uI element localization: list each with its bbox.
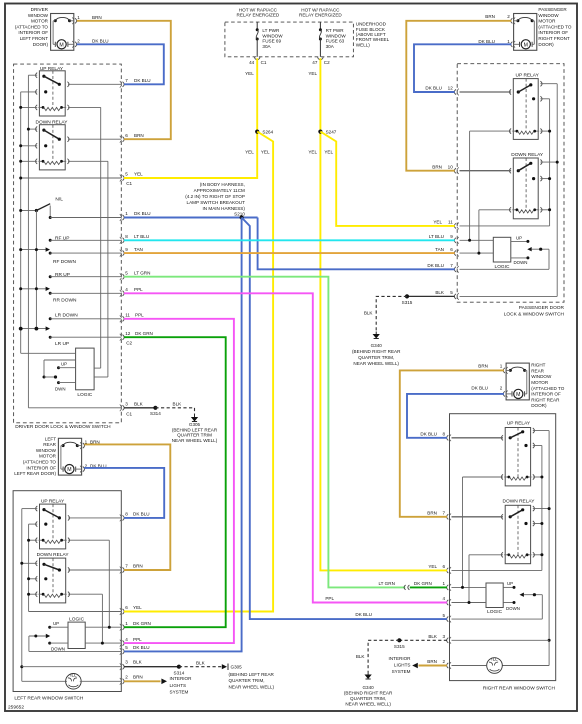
svg-text:LIGHTS: LIGHTS bbox=[394, 663, 411, 668]
driver switch pin 1 row bbox=[49, 216, 122, 219]
svg-text:REAR: REAR bbox=[531, 368, 544, 373]
wire BRN right rear switch pin 2 to interior lights bbox=[419, 665, 448, 667]
svg-text:6: 6 bbox=[443, 564, 446, 569]
svg-text:BLK: BLK bbox=[356, 654, 366, 659]
svg-text:4: 4 bbox=[125, 287, 128, 292]
motor passenger window motor bbox=[511, 14, 537, 51]
svg-text:(IN BODY HARNESS,: (IN BODY HARNESS, bbox=[200, 182, 245, 187]
svg-text:LR DOWN: LR DOWN bbox=[55, 313, 78, 319]
passenger relay common wire pin 10 bbox=[460, 170, 512, 172]
svg-text:INTERIOR OF: INTERIOR OF bbox=[26, 465, 56, 470]
svg-text:NEAR WHEEL WELL): NEAR WHEEL WELL) bbox=[353, 361, 399, 366]
svg-text:2: 2 bbox=[77, 39, 80, 44]
driver pin 5 YEL bbox=[123, 175, 125, 180]
wire DK BLU S210 branch to right rear switch pin 5 bbox=[242, 218, 447, 620]
driver logic DWN input bbox=[55, 381, 76, 391]
passenger relay coil wires to logic bbox=[470, 131, 512, 253]
passenger pin 11 bbox=[454, 223, 456, 228]
svg-text:RR UP: RR UP bbox=[55, 272, 70, 278]
wire YEL from RT PWR WINDOW fuse to right rear switch pin 6 bbox=[320, 58, 447, 570]
RF window rocker contacts bbox=[19, 236, 121, 266]
svg-text:DOWN RELAY: DOWN RELAY bbox=[503, 499, 536, 505]
splice S314 (driver) bbox=[153, 406, 157, 410]
svg-text:WELL): WELL) bbox=[356, 42, 371, 47]
svg-text:PASSENGER: PASSENGER bbox=[538, 7, 567, 12]
svg-text:NEAR WHEEL WELL): NEAR WHEEL WELL) bbox=[345, 702, 391, 707]
svg-text:C1: C1 bbox=[126, 411, 132, 416]
svg-text:S314: S314 bbox=[150, 411, 161, 416]
svg-text:TAN: TAN bbox=[134, 247, 143, 252]
fuse LT PWR WINDOW FUSE 69 30A bbox=[256, 22, 258, 29]
svg-text:C2: C2 bbox=[324, 60, 330, 65]
left rear switch power bus bbox=[27, 524, 37, 611]
svg-text:MOTOR: MOTOR bbox=[531, 380, 549, 385]
right rear relay common wire pin 7 bbox=[452, 516, 504, 518]
svg-text:INTERIOR OF: INTERIOR OF bbox=[531, 392, 561, 397]
driver pin 6 bbox=[123, 137, 125, 142]
svg-text:RF DOWN: RF DOWN bbox=[53, 259, 76, 265]
driver pin 5 LT GRN bbox=[123, 274, 125, 279]
svg-text:LIGHTS: LIGHTS bbox=[170, 683, 187, 688]
svg-text:DRIVER DOOR LOCK & WINDOW SWI: DRIVER DOOR LOCK & WINDOW SWITCH bbox=[15, 424, 111, 430]
ground G340 (passenger) bbox=[374, 332, 379, 339]
wire YEL branch from S264 to left rear switch pin 6 bbox=[124, 132, 273, 612]
svg-text:6: 6 bbox=[450, 247, 453, 252]
svg-text:DK BLU: DK BLU bbox=[420, 432, 437, 437]
svg-text:S315: S315 bbox=[402, 300, 413, 305]
svg-text:QUARTER TRIM,: QUARTER TRIM, bbox=[358, 355, 394, 360]
motor right rear window motor bbox=[503, 363, 529, 400]
driver logic UP input bbox=[57, 361, 76, 369]
svg-text:30A: 30A bbox=[326, 44, 335, 49]
driver logic input from power bus bbox=[21, 352, 76, 354]
wire DK BLU S210 branch to left rear switch pin 5 bbox=[124, 218, 242, 652]
svg-text:DK GRN: DK GRN bbox=[133, 621, 151, 626]
left rear relay output pin 8 bbox=[68, 517, 121, 519]
svg-text:NEAR WHEEL WELL): NEAR WHEEL WELL) bbox=[229, 684, 275, 689]
svg-text:TAN: TAN bbox=[435, 247, 444, 252]
svg-text:DWN: DWN bbox=[55, 386, 66, 391]
svg-text:BLK: BLK bbox=[196, 660, 206, 665]
right rear logic DOWN row pin 4 bbox=[452, 601, 520, 611]
svg-text:RIGHT: RIGHT bbox=[531, 363, 545, 368]
left rear pin 7 bbox=[123, 567, 125, 572]
passenger pin 5 bbox=[454, 294, 456, 299]
svg-text:LOCK & WINDOW SWITCH: LOCK & WINDOW SWITCH bbox=[504, 311, 565, 317]
left rear pin 2 bbox=[123, 679, 125, 684]
connector pin 44 C1 bbox=[254, 57, 260, 60]
svg-text:YEL: YEL bbox=[433, 220, 442, 225]
svg-text:5: 5 bbox=[125, 172, 128, 177]
svg-text:G305: G305 bbox=[189, 422, 201, 427]
svg-text:4: 4 bbox=[125, 637, 128, 642]
svg-text:LT GRN: LT GRN bbox=[134, 270, 150, 275]
right rear pin 4 bbox=[447, 600, 449, 605]
wire BRN left rear motor pin 1 to left rear switch pin 7 bbox=[84, 444, 170, 570]
svg-text:LEFT REAR WINDOW SWITCH: LEFT REAR WINDOW SWITCH bbox=[14, 696, 83, 702]
splice S315 (passenger) bbox=[405, 294, 409, 298]
svg-text:PASSENGER DOOR: PASSENGER DOOR bbox=[519, 305, 565, 311]
svg-text:UP RELAY: UP RELAY bbox=[507, 421, 531, 427]
driver pin 1 bbox=[123, 215, 125, 220]
right rear switch power bus bbox=[533, 446, 544, 571]
svg-text:(ATTACHED TO: (ATTACHED TO bbox=[531, 386, 565, 391]
right rear pin 6 bbox=[447, 568, 449, 573]
left rear pin 3 bbox=[123, 664, 125, 669]
underhood fuse block box bbox=[225, 22, 354, 57]
svg-text:DK BLU: DK BLU bbox=[133, 512, 150, 517]
splice S315 (right rear) bbox=[397, 638, 401, 642]
svg-text:RIGHT REAR WINDOW SWITCH: RIGHT REAR WINDOW SWITCH bbox=[483, 685, 556, 691]
svg-text:LOGIC: LOGIC bbox=[487, 609, 502, 615]
left rear pin 1 bbox=[123, 625, 125, 630]
wire DK GRN inline connector to right rear switch pin 1 bbox=[410, 586, 447, 588]
svg-text:C1: C1 bbox=[261, 60, 267, 65]
svg-text:DOWN RELAY: DOWN RELAY bbox=[37, 552, 70, 558]
svg-text:5: 5 bbox=[450, 290, 453, 295]
wire DK GRN driver switch pin 12 to left rear switch pin 1 bbox=[124, 337, 226, 627]
svg-text:INTERIOR OF: INTERIOR OF bbox=[538, 30, 568, 35]
svg-text:DOWN: DOWN bbox=[506, 606, 520, 611]
left rear pin 6 bbox=[123, 609, 125, 614]
relay driver UP relay bbox=[36, 71, 70, 116]
svg-text:(ATTACHED TO: (ATTACHED TO bbox=[538, 24, 572, 29]
passenger switch ground bus bbox=[540, 84, 558, 297]
svg-text:5: 5 bbox=[125, 645, 128, 650]
svg-text:2: 2 bbox=[443, 659, 446, 664]
svg-text:LOGIC: LOGIC bbox=[69, 616, 84, 622]
right rear window switch box bbox=[450, 414, 556, 681]
passenger door lock and window switch box bbox=[457, 64, 564, 303]
svg-text:(BEHIND LEFT REAR: (BEHIND LEFT REAR bbox=[172, 427, 218, 432]
svg-text:MOTOR: MOTOR bbox=[31, 19, 49, 24]
svg-text:N/L: N/L bbox=[55, 197, 63, 203]
svg-text:S247: S247 bbox=[326, 129, 337, 134]
svg-text:12: 12 bbox=[125, 331, 131, 336]
wire TAN driver switch pin 9 to passenger switch pin 6 bbox=[124, 252, 455, 254]
svg-text:G340: G340 bbox=[362, 685, 374, 690]
svg-text:2: 2 bbox=[125, 675, 128, 680]
passenger pin 7 bbox=[454, 267, 456, 272]
svg-text:RIGHT REAR: RIGHT REAR bbox=[531, 397, 560, 402]
svg-text:LT BLU: LT BLU bbox=[429, 234, 444, 239]
relay passenger DOWN relay bbox=[509, 158, 542, 219]
driver switch power bus bbox=[19, 92, 37, 353]
driver switch pin 3 ground row bbox=[28, 407, 121, 409]
passenger pin 6 row bbox=[460, 252, 494, 255]
svg-text:YEL: YEL bbox=[261, 149, 270, 154]
svg-text:5: 5 bbox=[125, 270, 128, 275]
LR window rocker contacts bbox=[19, 313, 122, 347]
svg-text:LAMP SWITCH BREAKOUT: LAMP SWITCH BREAKOUT bbox=[187, 200, 246, 205]
svg-text:DOOR): DOOR) bbox=[33, 42, 49, 47]
svg-text:WINDOW: WINDOW bbox=[28, 13, 49, 18]
svg-text:30A: 30A bbox=[262, 44, 271, 49]
svg-text:12: 12 bbox=[448, 86, 454, 91]
svg-text:DK BLU: DK BLU bbox=[471, 386, 488, 391]
svg-text:YEL: YEL bbox=[428, 564, 437, 569]
svg-text:47: 47 bbox=[312, 60, 318, 65]
svg-text:DK BLU: DK BLU bbox=[355, 612, 372, 617]
svg-text:DOWN: DOWN bbox=[514, 260, 528, 265]
svg-text:7: 7 bbox=[450, 263, 453, 268]
svg-text:3: 3 bbox=[443, 634, 446, 639]
left rear pin 8 bbox=[123, 515, 125, 520]
svg-text:DK BLU: DK BLU bbox=[425, 86, 442, 91]
svg-text:BRN: BRN bbox=[432, 164, 442, 169]
ground G305 (driver) bbox=[192, 415, 197, 422]
passenger logic box bbox=[493, 237, 511, 262]
driver pin 7 bbox=[123, 82, 125, 87]
wire BLK dashed left rear to ground G305 bbox=[179, 666, 222, 668]
svg-text:SYSTEM: SYSTEM bbox=[392, 669, 411, 674]
right rear pin 3 ground row bbox=[452, 639, 550, 641]
passenger logic UP output bbox=[511, 236, 530, 243]
passenger relay common wire pin 12 bbox=[460, 91, 512, 93]
driver logic wiper bbox=[43, 360, 76, 379]
left rear pin 3 ground row bbox=[22, 666, 122, 668]
right rear pin 1 bbox=[447, 585, 449, 590]
left rear pin 4 bbox=[123, 641, 125, 646]
svg-text:DOOR): DOOR) bbox=[531, 403, 547, 408]
svg-text:1: 1 bbox=[443, 581, 446, 586]
left rear lockout wiper from pin 5 bbox=[29, 634, 121, 652]
left rear illumination lamp ILL bbox=[66, 672, 122, 689]
relay right rear DOWN relay bbox=[501, 505, 534, 563]
svg-text:7: 7 bbox=[125, 564, 128, 569]
svg-text:7: 7 bbox=[443, 511, 446, 516]
svg-text:G340: G340 bbox=[371, 343, 383, 348]
svg-text:LOGIC: LOGIC bbox=[77, 392, 92, 398]
svg-text:3: 3 bbox=[125, 659, 128, 664]
svg-text:MOTOR: MOTOR bbox=[538, 19, 556, 24]
svg-text:BRN: BRN bbox=[133, 564, 143, 569]
svg-text:7: 7 bbox=[125, 78, 128, 83]
svg-text:YEL: YEL bbox=[308, 149, 317, 154]
svg-text:(BEHIND RIGHT REAR: (BEHIND RIGHT REAR bbox=[352, 349, 401, 354]
svg-text:1: 1 bbox=[500, 363, 503, 368]
svg-text:RR DOWN: RR DOWN bbox=[53, 298, 77, 304]
svg-text:11: 11 bbox=[448, 220, 453, 225]
svg-text:BRN: BRN bbox=[92, 15, 102, 20]
passenger pin 9 row bbox=[460, 239, 494, 242]
wire DK BLU right rear motor pin 2 to right rear switch pin 8 bbox=[407, 394, 504, 438]
svg-text:PPL: PPL bbox=[133, 637, 142, 642]
passenger pin 5 ground row bbox=[460, 295, 558, 297]
right rear pin 8 bbox=[447, 435, 449, 440]
passenger feed row pin 11 bbox=[460, 225, 550, 227]
svg-text:LR UP: LR UP bbox=[55, 341, 69, 347]
right rear lockout wiper from pin 5 bbox=[452, 593, 543, 620]
driver door lock and window switch box bbox=[14, 64, 122, 423]
svg-text:YEL: YEL bbox=[134, 172, 143, 177]
svg-text:DK BLU: DK BLU bbox=[134, 211, 151, 216]
left rear logic box bbox=[68, 622, 85, 648]
relay left rear UP relay bbox=[36, 504, 70, 549]
svg-text:RELAY ENERGIZED: RELAY ENERGIZED bbox=[299, 13, 342, 18]
svg-text:DK BLU: DK BLU bbox=[478, 39, 495, 44]
driver switch ground bus bbox=[27, 75, 37, 408]
driver pin 12 bbox=[123, 335, 125, 340]
svg-text:INTERIOR OF: INTERIOR OF bbox=[18, 30, 48, 35]
svg-text:DK BLU: DK BLU bbox=[92, 39, 109, 44]
svg-text:S314: S314 bbox=[174, 670, 185, 675]
svg-text:(ATTACHED TO: (ATTACHED TO bbox=[15, 24, 49, 29]
right rear pin 2 bbox=[447, 663, 449, 668]
svg-text:C2: C2 bbox=[126, 341, 132, 346]
svg-text:3: 3 bbox=[125, 402, 128, 407]
wire YEL branch from S247 to passenger switch pin 11 bbox=[320, 132, 454, 226]
svg-text:QUARTER TRIM,: QUARTER TRIM, bbox=[350, 696, 386, 701]
svg-text:DK GRN: DK GRN bbox=[135, 331, 153, 336]
svg-text:44: 44 bbox=[249, 60, 255, 65]
svg-text:2: 2 bbox=[500, 386, 503, 391]
svg-text:M: M bbox=[67, 467, 71, 473]
svg-text:(ATTACHED TO: (ATTACHED TO bbox=[23, 460, 57, 465]
svg-text:259652: 259652 bbox=[8, 704, 24, 710]
right rear pin 3 bbox=[447, 638, 449, 643]
svg-text:6: 6 bbox=[125, 133, 128, 138]
svg-text:1: 1 bbox=[507, 39, 510, 44]
svg-text:INTERIOR: INTERIOR bbox=[170, 676, 193, 681]
wire BRN passenger motor pin 2 to passenger switch pin 10 bbox=[406, 21, 511, 171]
driver pin 8 bbox=[123, 238, 125, 243]
svg-text:YEL: YEL bbox=[245, 149, 254, 154]
svg-text:4: 4 bbox=[443, 596, 446, 601]
wire BRN driver motor pin 1 to driver switch pin 6 bbox=[77, 21, 171, 139]
svg-text:UP: UP bbox=[516, 236, 522, 241]
svg-text:UP: UP bbox=[53, 621, 59, 626]
wire DK BLU driver switch pin 1 to splice S210 bbox=[124, 217, 258, 219]
inline connector LT GRN / DK GRN bbox=[404, 585, 406, 590]
right rear logic box bbox=[486, 583, 503, 608]
svg-text:LT GRN: LT GRN bbox=[378, 581, 394, 586]
svg-text:DOWN: DOWN bbox=[51, 647, 65, 652]
ground arrow G305 (left rear) bbox=[222, 664, 227, 669]
svg-text:1: 1 bbox=[77, 15, 80, 20]
wire DK BLU S210 branch to passenger switch pin 7 bbox=[258, 218, 455, 270]
svg-text:DK BLU: DK BLU bbox=[427, 263, 444, 268]
wire LT GRN driver switch pin 5 to inline connector bbox=[124, 277, 405, 588]
svg-text:BLK: BLK bbox=[173, 402, 183, 407]
driver pin 11 bbox=[123, 316, 125, 321]
motor left rear window motor bbox=[58, 438, 84, 475]
wire BLK left rear switch pin 3 to splice S314 bbox=[124, 666, 179, 668]
driver pin 4 bbox=[123, 291, 125, 296]
right rear relay common wire pin 8 bbox=[452, 437, 504, 439]
wire BLK dashed right rear to ground G340 bbox=[368, 640, 399, 672]
svg-text:BRN: BRN bbox=[427, 511, 437, 516]
left rear relay output pin 7 bbox=[68, 569, 121, 571]
svg-text:DK BLU: DK BLU bbox=[134, 78, 151, 83]
splice S247 bbox=[318, 130, 322, 134]
wire YEL from LT PWR WINDOW fuse to driver switch pin 5 bbox=[124, 58, 257, 178]
left rear pin 5 bbox=[123, 649, 125, 654]
svg-text:M: M bbox=[516, 392, 520, 398]
RR window rocker contacts bbox=[19, 272, 121, 304]
svg-text:DRIVER: DRIVER bbox=[31, 7, 49, 12]
driver relay output wire pin 6 bbox=[68, 138, 121, 140]
passenger pin 9 bbox=[454, 238, 456, 243]
svg-text:5: 5 bbox=[443, 613, 446, 618]
svg-text:8: 8 bbox=[125, 234, 128, 239]
wire BLK dashed right rear switch pin 3 to splice S315 bbox=[399, 639, 447, 641]
splice S264 bbox=[255, 130, 259, 134]
svg-text:BLK: BLK bbox=[364, 311, 374, 316]
svg-text:UP RELAY: UP RELAY bbox=[41, 498, 65, 504]
wire PPL driver switch pin 11 to left rear switch pin 4 bbox=[124, 319, 234, 643]
svg-text:PPL: PPL bbox=[325, 596, 334, 601]
svg-text:YEL: YEL bbox=[245, 71, 254, 76]
passenger pin 10 bbox=[454, 168, 456, 173]
svg-text:(BEHIND RIGHT REAR: (BEHIND RIGHT REAR bbox=[344, 691, 393, 696]
svg-text:BRN: BRN bbox=[485, 14, 495, 19]
svg-text:LEFT FRONT: LEFT FRONT bbox=[20, 36, 48, 41]
driver relay output wire pin 7 bbox=[68, 83, 121, 85]
left rear switch ground bus bbox=[20, 509, 65, 682]
wire BRN left rear switch pin 2 to interior lights bbox=[124, 680, 161, 682]
svg-text:DK BLU: DK BLU bbox=[133, 645, 150, 650]
svg-text:LEFT REAR DOOR): LEFT REAR DOOR) bbox=[14, 471, 56, 476]
svg-text:REAR: REAR bbox=[43, 442, 56, 447]
svg-text:BRN: BRN bbox=[134, 133, 144, 138]
svg-text:LT BLU: LT BLU bbox=[134, 234, 149, 239]
svg-text:8: 8 bbox=[125, 512, 128, 517]
svg-text:QUARTER TRIM,: QUARTER TRIM, bbox=[229, 678, 265, 683]
svg-text:G305: G305 bbox=[231, 665, 243, 670]
right rear pin 5 bbox=[447, 617, 449, 622]
svg-text:8: 8 bbox=[443, 432, 446, 437]
svg-text:9: 9 bbox=[125, 247, 128, 252]
wire DK BLU passenger motor pin 1 to passenger switch pin 12 bbox=[414, 44, 511, 92]
svg-text:2: 2 bbox=[507, 14, 510, 19]
wire DK BLU left rear motor pin 2 to left rear switch pin 8 bbox=[84, 468, 164, 518]
svg-text:S210: S210 bbox=[234, 211, 245, 216]
svg-text:IN MAIN HARNESS): IN MAIN HARNESS) bbox=[203, 206, 246, 211]
wire BLK dashed S315 to ground G340 bbox=[376, 296, 407, 331]
svg-text:PPL: PPL bbox=[135, 313, 144, 318]
svg-text:S315: S315 bbox=[394, 644, 405, 649]
svg-text:LEFT: LEFT bbox=[45, 436, 56, 441]
driver logic outputs to relay coils bbox=[94, 368, 108, 377]
svg-text:UP RELAY: UP RELAY bbox=[516, 73, 540, 79]
svg-text:RIGHT FRONT: RIGHT FRONT bbox=[538, 36, 569, 41]
passenger switch power bus bbox=[540, 99, 551, 226]
ground arrow G340 (right rear) bbox=[366, 672, 371, 679]
left rear logic UP row pin 1 bbox=[48, 621, 121, 629]
wire BLK passenger switch pin 5 to splice S315 bbox=[407, 295, 455, 297]
left rear window switch box bbox=[13, 491, 121, 692]
svg-text:WINDOW: WINDOW bbox=[531, 374, 552, 379]
svg-text:1: 1 bbox=[125, 211, 128, 216]
passenger lockout wiper from pin 7 bbox=[460, 247, 550, 269]
left rear logic DOWN row pin 4 bbox=[48, 642, 121, 652]
passenger pin 6 bbox=[454, 251, 456, 256]
driver relay coil wires to logic bbox=[68, 107, 108, 377]
right rear logic UP row pin 1 bbox=[452, 581, 516, 589]
connector pin 47 C2 bbox=[318, 57, 324, 60]
driver switch feed wire pin 5 YEL bbox=[19, 177, 121, 180]
svg-text:MOTOR: MOTOR bbox=[39, 454, 57, 459]
left rear feed row pin 6 bbox=[29, 611, 122, 613]
wire BLK dashed S314 to ground G305 bbox=[155, 408, 194, 415]
svg-text:M: M bbox=[524, 42, 528, 48]
svg-text:UP: UP bbox=[61, 361, 67, 366]
left rear relay coil wires to logic bbox=[68, 540, 109, 643]
relay passenger UP relay bbox=[509, 79, 542, 140]
svg-text:YEL: YEL bbox=[133, 605, 142, 610]
svg-text:YEL: YEL bbox=[324, 149, 333, 154]
